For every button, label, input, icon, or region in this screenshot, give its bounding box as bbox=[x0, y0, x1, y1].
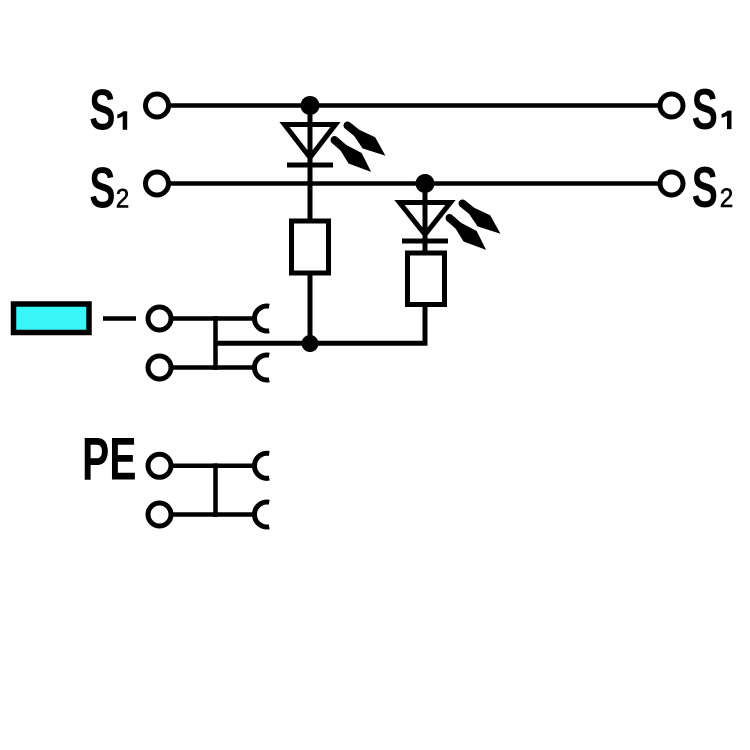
svg-text:S: S bbox=[692, 78, 718, 142]
svg-text:PE: PE bbox=[82, 426, 136, 493]
svg-text:S: S bbox=[692, 156, 718, 220]
svg-text:S: S bbox=[89, 78, 115, 142]
svg-text:S: S bbox=[89, 156, 115, 220]
svg-text:2: 2 bbox=[720, 184, 734, 213]
svg-text:2: 2 bbox=[116, 184, 130, 213]
